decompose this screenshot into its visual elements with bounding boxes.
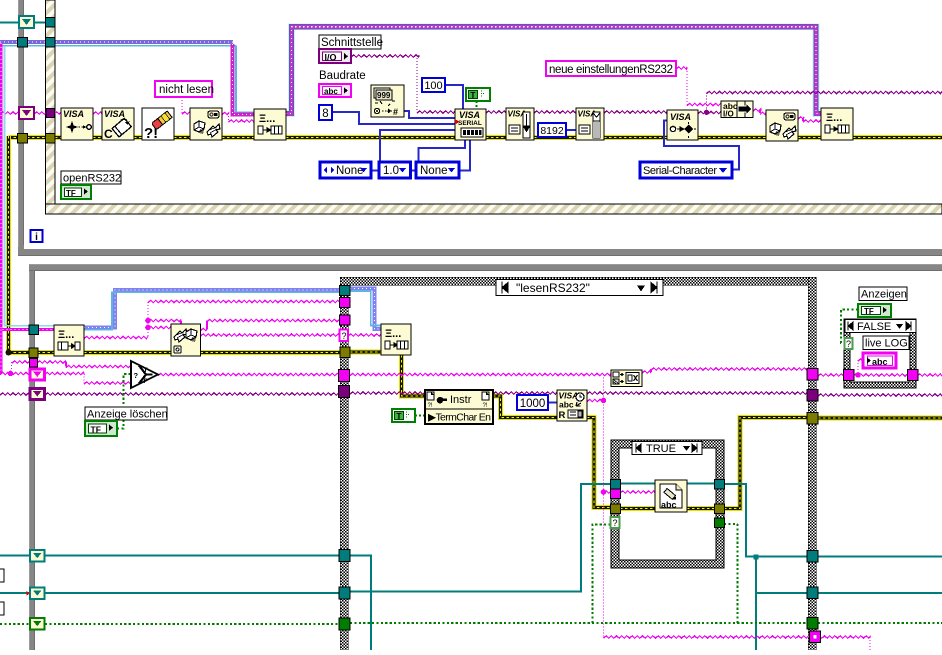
blue wire Serial-Character enum to VISA property U8 xyxy=(664,121,739,170)
dark purple VISA wire serial config to set-attribute xyxy=(486,111,506,113)
selector tunnel FALSE case xyxy=(845,338,853,349)
svg-text:VISA: VISA xyxy=(670,112,691,122)
dark purple VISA wire U8 to abc/IO property with junction and branch right xyxy=(698,91,942,115)
label Schnittstelle xyxy=(319,35,383,49)
svg-text:live LOG: live LOG xyxy=(865,338,908,350)
svg-text:T: T xyxy=(471,91,476,100)
teal wire left edge to SR3 and to case tunnel xyxy=(0,592,340,594)
svg-text:?: ? xyxy=(134,371,139,380)
cropped label box left edge 2 xyxy=(0,602,4,615)
svg-text:999: 999 xyxy=(377,91,391,100)
I/O name control xyxy=(319,49,351,63)
variant to data icon U4 xyxy=(190,108,222,140)
magenta wire question tunnel to U12 inside case xyxy=(348,334,381,336)
error wire TRUE case out to right tunnel xyxy=(724,418,808,509)
nested case FALSE selector label xyxy=(845,320,916,334)
outer while loop (top) bottom border xyxy=(18,245,942,256)
select node triangle xyxy=(131,361,158,388)
array build icon U5 xyxy=(254,109,286,140)
blue wire constant 8 to VISA serial xyxy=(332,112,455,124)
magenta string wire U1 to U2 xyxy=(93,112,102,114)
numeric constant 8192 xyxy=(538,123,566,137)
green wire boolean T to property node row xyxy=(415,415,425,417)
olive tunnel case right xyxy=(807,413,818,425)
magenta wire from label nicht lesen to U4 xyxy=(182,97,190,114)
label openRS232 xyxy=(61,171,121,185)
svg-text:?: ? xyxy=(341,331,346,341)
string control abc xyxy=(319,84,351,97)
svg-text:abc: abc xyxy=(661,500,677,510)
svg-text:?!: ?! xyxy=(483,403,488,409)
magenta tunnel case left lower xyxy=(339,370,350,382)
teal tunnel on bottom loop border for pair wire xyxy=(29,325,39,335)
shift register SR magenta (bottom loop) xyxy=(30,369,45,380)
error wire VISA read down into nested TRUE case xyxy=(587,418,611,508)
VISA set buffer size icon U9 xyxy=(576,108,604,140)
olive tunnel TRUE case left xyxy=(611,504,621,514)
error wire property node to VISA read xyxy=(493,396,557,418)
magenta wire from label neue einstellungenRS232 to property icon xyxy=(676,67,721,106)
numeric constant 8 xyxy=(319,105,332,120)
svg-text:FALSE: FALSE xyxy=(857,321,891,333)
svg-text:openRS232: openRS232 xyxy=(63,173,121,185)
svg-text:#: # xyxy=(393,107,398,117)
property node Instr TermChar En xyxy=(425,390,493,424)
teal wire through TRUE case string icon xyxy=(620,483,715,485)
error wire U12 down to property node xyxy=(402,355,426,396)
magenta wire from left tunnel across case to typecast xyxy=(350,373,611,375)
svg-text:VISA: VISA xyxy=(104,109,125,119)
blue wire enum chain and risers to VISA serial bottom xyxy=(371,140,470,171)
boolean constant TF openRS232 xyxy=(61,185,91,199)
dark purple VISA wire VISA read to right tunnel and out xyxy=(587,392,942,396)
variant to data icon U7b (bottom, mirrored) xyxy=(171,324,201,356)
svg-text:▶TermChar En: ▶TermChar En xyxy=(428,412,491,424)
violet/cyan pair wire from build-array U5 over the top to build-array U11 xyxy=(286,27,821,114)
magenta tunnel1 case left xyxy=(340,298,351,308)
olive tunnel case left xyxy=(340,347,350,358)
dark purple VISA wire from left edge to shift register xyxy=(0,393,29,395)
svg-text:None: None xyxy=(336,165,364,177)
enum constant 1.0 xyxy=(379,162,411,178)
svg-text:1.0: 1.0 xyxy=(383,165,399,177)
svg-text:8192: 8192 xyxy=(540,125,564,137)
svg-text:abc: abc xyxy=(559,400,574,410)
svg-text:Serial-Character: Serial-Character xyxy=(643,165,717,177)
svg-text:T: T xyxy=(144,367,148,374)
purple tunnel on sequence border xyxy=(46,109,55,118)
teal tunnel on sequence border (top) xyxy=(46,18,56,28)
violet/cyan pair wire from left edge to build-array U5 xyxy=(0,42,254,115)
sequence structure left border (diagonal stripes) xyxy=(46,0,56,214)
variant to data icon U11 xyxy=(766,110,798,141)
violet/cyan pair wire from U6 up into case tunnel and down to string-to-array U12 xyxy=(84,289,381,330)
svg-text:Baudrate: Baudrate xyxy=(319,70,366,82)
sequence structure bottom border (diagonal stripes) xyxy=(46,204,942,214)
svg-text:Ξ...: Ξ... xyxy=(58,329,74,341)
olive tunnel on bottom loop border xyxy=(29,348,38,358)
svg-text:T: T xyxy=(397,412,402,421)
svg-text:?: ? xyxy=(846,339,851,349)
magenta branch to live LOG indicator xyxy=(855,359,863,378)
magenta output tunnel case right bottom xyxy=(810,631,821,643)
magenta tunnel2 case left xyxy=(340,315,351,325)
shift register SR purple (top loop) xyxy=(19,107,34,119)
svg-text:abc: abc xyxy=(872,357,888,367)
svg-text:I/O: I/O xyxy=(723,110,734,119)
dark purple tunnel case left lower xyxy=(339,386,350,398)
blue wire 8192 to buffer icon xyxy=(566,129,576,131)
case structure lesenRS232 left border xyxy=(340,277,348,650)
olive tunnel TRUE case right xyxy=(715,504,725,514)
teal tunnel case left for pair xyxy=(340,286,351,296)
VISA close icon U2 xyxy=(102,108,134,141)
magenta wire typecast to right tunnel through FALSE case xyxy=(642,368,942,376)
error wire junction into bottom loop xyxy=(6,350,30,356)
teal tunnel TRUE case right xyxy=(715,480,725,490)
teal tunnel TRUE case left xyxy=(611,480,621,490)
magenta wire U6 output up to junctions and case tunnels xyxy=(84,300,340,338)
svg-text:"lesenRS232": "lesenRS232" xyxy=(516,281,590,295)
magenta dotted vertical continued to string junction at left edge xyxy=(0,330,3,374)
shift register SR dark purple (bottom loop) xyxy=(30,389,45,400)
green boolean wire Anzeige loeschen to select node xyxy=(117,374,131,429)
magenta tunnel TRUE case left xyxy=(611,489,621,499)
teal tunnel on sequence border (second) xyxy=(46,38,56,48)
green tunnel case left bottom xyxy=(339,618,350,630)
case structure lesenRS232 top border xyxy=(340,277,816,285)
blue wire converter to VISA serial xyxy=(404,111,456,118)
teal wire left edge to SR2 and to case tunnel xyxy=(0,555,340,557)
svg-text:nicht lesen: nicht lesen xyxy=(159,84,214,96)
svg-text:Anzeigen: Anzeigen xyxy=(861,289,907,301)
svg-text:None: None xyxy=(420,165,448,177)
array build icon U12 top right xyxy=(821,108,853,140)
boolean constant TF Anzeige loeschen xyxy=(85,421,117,436)
bottom while loop top border xyxy=(29,264,942,271)
magenta wire shift register to select node lower input xyxy=(45,372,132,384)
teal tunnel case right2 xyxy=(807,587,818,599)
shift register SR3 teal with red arrow (bottom loop) xyxy=(27,588,45,600)
teal wire into shift register SR1 xyxy=(0,22,46,24)
svg-text:TRUE: TRUE xyxy=(646,443,676,455)
enum constant None 2 xyxy=(416,162,459,178)
case selector label "lesenRS232" xyxy=(496,280,663,296)
magenta/cyan pair wire from left edge into extract U6 xyxy=(1,43,54,330)
error wire through TRUE case string icon xyxy=(620,506,715,511)
svg-text:Instr: Instr xyxy=(450,394,472,406)
dark purple VISA wire buffer to VISA property U8 xyxy=(604,111,667,113)
svg-text:VISA: VISA xyxy=(459,110,480,120)
magenta net from display tunnel to select node xyxy=(0,361,131,377)
svg-text:Ξ...: Ξ... xyxy=(259,113,275,125)
label Baudrate xyxy=(319,70,366,82)
error wire top row (olive dashed) xyxy=(9,135,942,140)
dark purple tunnel case right xyxy=(807,390,818,402)
live LOG string indicator xyxy=(863,353,896,368)
blue wire enum 1.0 to VISA serial left xyxy=(380,130,455,162)
dark purple VISA wire set-attribute to buffer xyxy=(534,111,576,113)
string edit icon in TRUE case xyxy=(655,480,687,512)
label Anzeige loeschen xyxy=(85,407,168,421)
svg-text:I/O: I/O xyxy=(325,53,337,63)
enum constant None 1 xyxy=(320,162,371,178)
svg-text:Ξ...: Ξ... xyxy=(385,328,401,340)
typecast icon xyxy=(611,370,642,387)
svg-text:TF: TF xyxy=(864,307,874,316)
teal junction dot xyxy=(754,555,759,560)
magenta tunnel FALSE case left xyxy=(844,370,855,381)
dark purple VISA wire tunnel to property node xyxy=(350,392,425,394)
svg-text:1000: 1000 xyxy=(520,398,546,410)
svg-text:VISA: VISA xyxy=(63,109,84,119)
VISA configure serial port icon U7 xyxy=(455,109,486,140)
dark purple VISA wire shift register to case tunnel xyxy=(45,393,339,395)
teal tunnel case left bottom2 xyxy=(339,587,350,599)
svg-text:neue einstellungenRS232: neue einstellungenRS232 xyxy=(549,64,673,76)
magenta tunnel on bottom loop border xyxy=(30,359,38,368)
array subset icon U6b (bottom left) xyxy=(54,325,84,356)
magenta wires variant U7 outputs to case tunnels xyxy=(201,319,341,336)
spreadsheet string to array icon U12b xyxy=(381,324,411,355)
clear errors icon U3 xyxy=(142,108,174,142)
green boolean wire Anzeigen TF to FALSE selector xyxy=(841,310,858,344)
svg-text:Schnittstelle: Schnittstelle xyxy=(321,37,383,49)
shift register SR2 teal (bottom loop) xyxy=(30,550,45,562)
boolean constant T at property node xyxy=(392,409,415,422)
nested case FALSE borders xyxy=(844,319,916,388)
green tunnel TRUE case right xyxy=(715,518,725,528)
outer while loop (top) left border xyxy=(18,0,24,256)
magenta wire VISA read output with junctions down to bottom exit xyxy=(587,375,871,651)
VISA open icon U1 xyxy=(61,108,93,140)
teal wire inside case from tunnel down off screen xyxy=(350,556,371,651)
numeric constant 100 xyxy=(422,78,445,92)
nested case TRUE borders xyxy=(611,440,724,568)
svg-text:?!: ?! xyxy=(428,403,433,409)
svg-text:SERIAL: SERIAL xyxy=(458,120,482,127)
svg-text:R: R xyxy=(559,410,566,421)
olive tunnel on top loop border xyxy=(18,134,28,144)
error wire across bottom loop row xyxy=(38,350,341,355)
abc I/O property combo icon xyxy=(721,101,753,119)
enum constant Serial-Character xyxy=(640,162,732,178)
error wire out of case right side xyxy=(818,416,942,421)
case structure lesenRS232 right border xyxy=(808,277,816,650)
label nicht lesen xyxy=(155,81,214,97)
green boolean wire across case with branches to TRUE selector xyxy=(350,524,808,623)
error wire across lesenRS232 case into string-to-array U12 xyxy=(350,350,381,355)
teal tunnel case right1 xyxy=(807,551,818,563)
bottom while loop left border xyxy=(29,264,35,650)
svg-text:8: 8 xyxy=(322,108,328,120)
blue wire 1000 to VISA read xyxy=(548,402,557,404)
svg-text:TF: TF xyxy=(91,425,101,435)
olive tunnel on sequence border xyxy=(46,134,56,144)
magenta wire select node output to case tunnel xyxy=(158,373,340,375)
cropped label box left edge 1 xyxy=(0,569,4,582)
teal wire tunnel2 up into TRUE case xyxy=(350,484,611,592)
svg-text:100: 100 xyxy=(424,80,442,92)
VISA set attribute icon U8a xyxy=(506,108,534,140)
question selector tunnel case left xyxy=(340,330,349,342)
green tunnel case right xyxy=(807,618,818,630)
magenta tunnel FALSE case right xyxy=(908,370,919,381)
svg-text:?: ? xyxy=(612,518,617,528)
shift register SR4 green (bottom loop) xyxy=(30,618,45,630)
dark purple VISA wire I/O control to VISA serial xyxy=(351,55,455,113)
blue wire constant 100 down to VISA serial top xyxy=(445,85,463,109)
magenta wire property icon to U10 xyxy=(753,109,766,115)
iteration terminal i (top loop) xyxy=(31,230,43,243)
boolean control TF Anzeigen xyxy=(858,304,891,317)
nested case TRUE selector label xyxy=(632,442,702,456)
boolean constant T (top) xyxy=(466,88,490,101)
magenta wire U4 to U5 xyxy=(222,112,254,122)
magenta wire U10 to U11 xyxy=(798,117,821,122)
error wire vertical from top row down the left side to junction xyxy=(6,136,11,353)
green boolean wire left edge to SR4 and case tunnel xyxy=(0,623,340,625)
magenta tunnel case right top xyxy=(807,369,818,381)
label Anzeigen xyxy=(859,287,907,301)
dark purple VISA wire property node to VISA read xyxy=(493,392,557,394)
string to number conversion icon U6 xyxy=(371,85,404,117)
svg-text:Anzeige löschen: Anzeige löschen xyxy=(87,409,168,421)
svg-text:abc: abc xyxy=(324,87,338,96)
svg-text:TF: TF xyxy=(66,189,76,198)
magenta string wire into VISA open U1 xyxy=(0,112,61,114)
teal tunnel case left bottom1 xyxy=(339,550,350,562)
teal wire TRUE case out to right tunnels with branch xyxy=(724,484,808,650)
label neue einstellungenRS232 xyxy=(546,61,676,76)
green boolean wire out of case right side xyxy=(818,622,942,624)
svg-text:Ξ...: Ξ... xyxy=(826,112,842,124)
teal tunnel on top loop border xyxy=(18,38,28,48)
shift register SR1 teal (top loop) xyxy=(19,16,34,28)
label live LOG xyxy=(863,336,909,350)
VISA enable event icon U10 xyxy=(667,110,698,140)
green wire boolean T to VISA serial top xyxy=(476,101,478,109)
svg-text:i: i xyxy=(35,232,38,243)
svg-text:F: F xyxy=(144,378,148,385)
selector tunnel TRUE case xyxy=(611,517,620,528)
teal wires out of case right side xyxy=(818,557,942,594)
VISA read icon xyxy=(557,390,587,421)
numeric constant 1000 xyxy=(517,395,548,410)
